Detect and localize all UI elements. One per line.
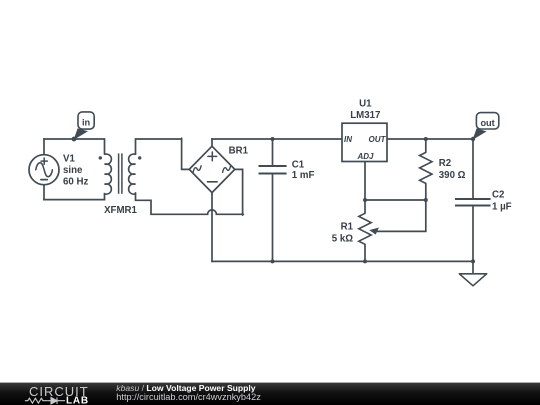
wire C1 top stub bbox=[272, 138, 274, 166]
svg-text:1 µF: 1 µF bbox=[492, 201, 512, 212]
wire ground stub bbox=[472, 261, 474, 274]
svg-text:in: in bbox=[82, 117, 91, 127]
node flag in box bbox=[78, 112, 94, 129]
wire R1 wiper to R2 bottom node bbox=[377, 200, 426, 231]
wire top bus to U1 IN bbox=[211, 138, 342, 140]
svg-text:5 kΩ: 5 kΩ bbox=[332, 233, 353, 244]
svg-text:C2: C2 bbox=[492, 190, 504, 201]
svg-text:U1: U1 bbox=[359, 99, 372, 110]
junction R2 bottom node bbox=[424, 198, 428, 202]
svg-text:XFMR1: XFMR1 bbox=[104, 205, 137, 216]
svg-text:ADJ: ADJ bbox=[356, 152, 374, 161]
node flag in pointer bbox=[74, 128, 88, 140]
svg-text:1 mF: 1 mF bbox=[292, 170, 315, 181]
junction R1 bottom bbox=[363, 259, 367, 263]
wire U1 OUT to out node bbox=[387, 138, 474, 140]
wire secondary top to bend bbox=[136, 139, 182, 154]
wire R2 top stub bbox=[425, 138, 427, 152]
capacitor C2 bbox=[455, 198, 491, 200]
junction node in on top wire bbox=[72, 137, 77, 142]
svg-text:V1: V1 bbox=[63, 153, 75, 164]
V1 plus sign bbox=[41, 158, 47, 164]
svg-text:sine: sine bbox=[63, 165, 83, 176]
wire R1 bottom stub bbox=[364, 244, 366, 262]
junction C1 bottom bbox=[271, 259, 275, 263]
junction C1 top bbox=[271, 137, 275, 141]
op-amp U1 regulator LM317 box with pins IN OUT ADJ bbox=[342, 123, 387, 161]
footer logo resistor+diode symbol bbox=[25, 398, 48, 403]
voltage source V1 bbox=[29, 155, 59, 185]
svg-text:R2: R2 bbox=[439, 158, 451, 169]
wire U1 ADJ pin down bbox=[364, 162, 366, 201]
svg-text:C1: C1 bbox=[292, 159, 305, 170]
wire V1 bottom to primary bbox=[43, 199, 105, 201]
svg-text:http://circuitlab.com/cr4wvznk: http://circuitlab.com/cr4wvznkyb42z bbox=[116, 392, 261, 402]
node flag out box bbox=[476, 113, 498, 129]
wire out node down through C2 bbox=[472, 138, 474, 199]
bridge rectifier BR1 bbox=[189, 146, 235, 192]
junction out node bbox=[471, 137, 475, 141]
capacitor C1 bbox=[259, 165, 287, 167]
wire bend down to bridge left vertex bbox=[182, 138, 190, 169]
svg-text:LM317: LM317 bbox=[350, 110, 380, 121]
wire V1 top stub bbox=[43, 138, 45, 155]
potentiometer R1 zigzag with wiper arrow bbox=[359, 213, 371, 244]
junction ADJ node bbox=[363, 198, 367, 202]
svg-text:IN: IN bbox=[344, 135, 352, 144]
wire bridge bottom vertex to ground bus bbox=[211, 193, 213, 263]
svg-text:60 Hz: 60 Hz bbox=[63, 177, 88, 188]
footer bar bbox=[0, 383, 540, 405]
wire V1 bottom stub bbox=[43, 184, 45, 200]
wire bridge top vertex to top bus bbox=[211, 138, 213, 146]
junction R2 top bbox=[424, 137, 428, 141]
wire R1 top stub bbox=[364, 200, 366, 213]
svg-text:BR1: BR1 bbox=[229, 146, 249, 157]
V1 minus sign bbox=[41, 179, 47, 181]
wire R2 bottom stub bbox=[425, 184, 427, 201]
svg-text:R1: R1 bbox=[341, 221, 354, 232]
svg-text:OUT: OUT bbox=[369, 135, 387, 144]
junction ground node bbox=[471, 259, 475, 263]
svg-text:390 Ω: 390 Ω bbox=[439, 170, 466, 181]
wire bottom ground bus bbox=[211, 260, 473, 262]
svg-text:out: out bbox=[480, 118, 494, 128]
ground symbol bbox=[459, 274, 486, 286]
wire primary bottom stub bbox=[104, 193, 106, 201]
wire primary top stub bbox=[104, 138, 106, 154]
wire top-left from V1 to XFMR1 primary bbox=[43, 138, 104, 140]
svg-text:LAB: LAB bbox=[66, 395, 89, 405]
wire C2 bottom stub bbox=[472, 206, 474, 263]
wire secondary bottom with hop over bridge wire bbox=[136, 193, 244, 215]
wire ADJ node to R2 bottom node bbox=[364, 199, 426, 201]
wire C1 bottom stub bbox=[272, 174, 274, 263]
node flag out pointer bbox=[473, 128, 487, 140]
transformer XFMR1 bbox=[105, 154, 112, 194]
wire bridge right vertex down bbox=[235, 169, 243, 215]
resistor R2 zigzag bbox=[420, 152, 432, 183]
